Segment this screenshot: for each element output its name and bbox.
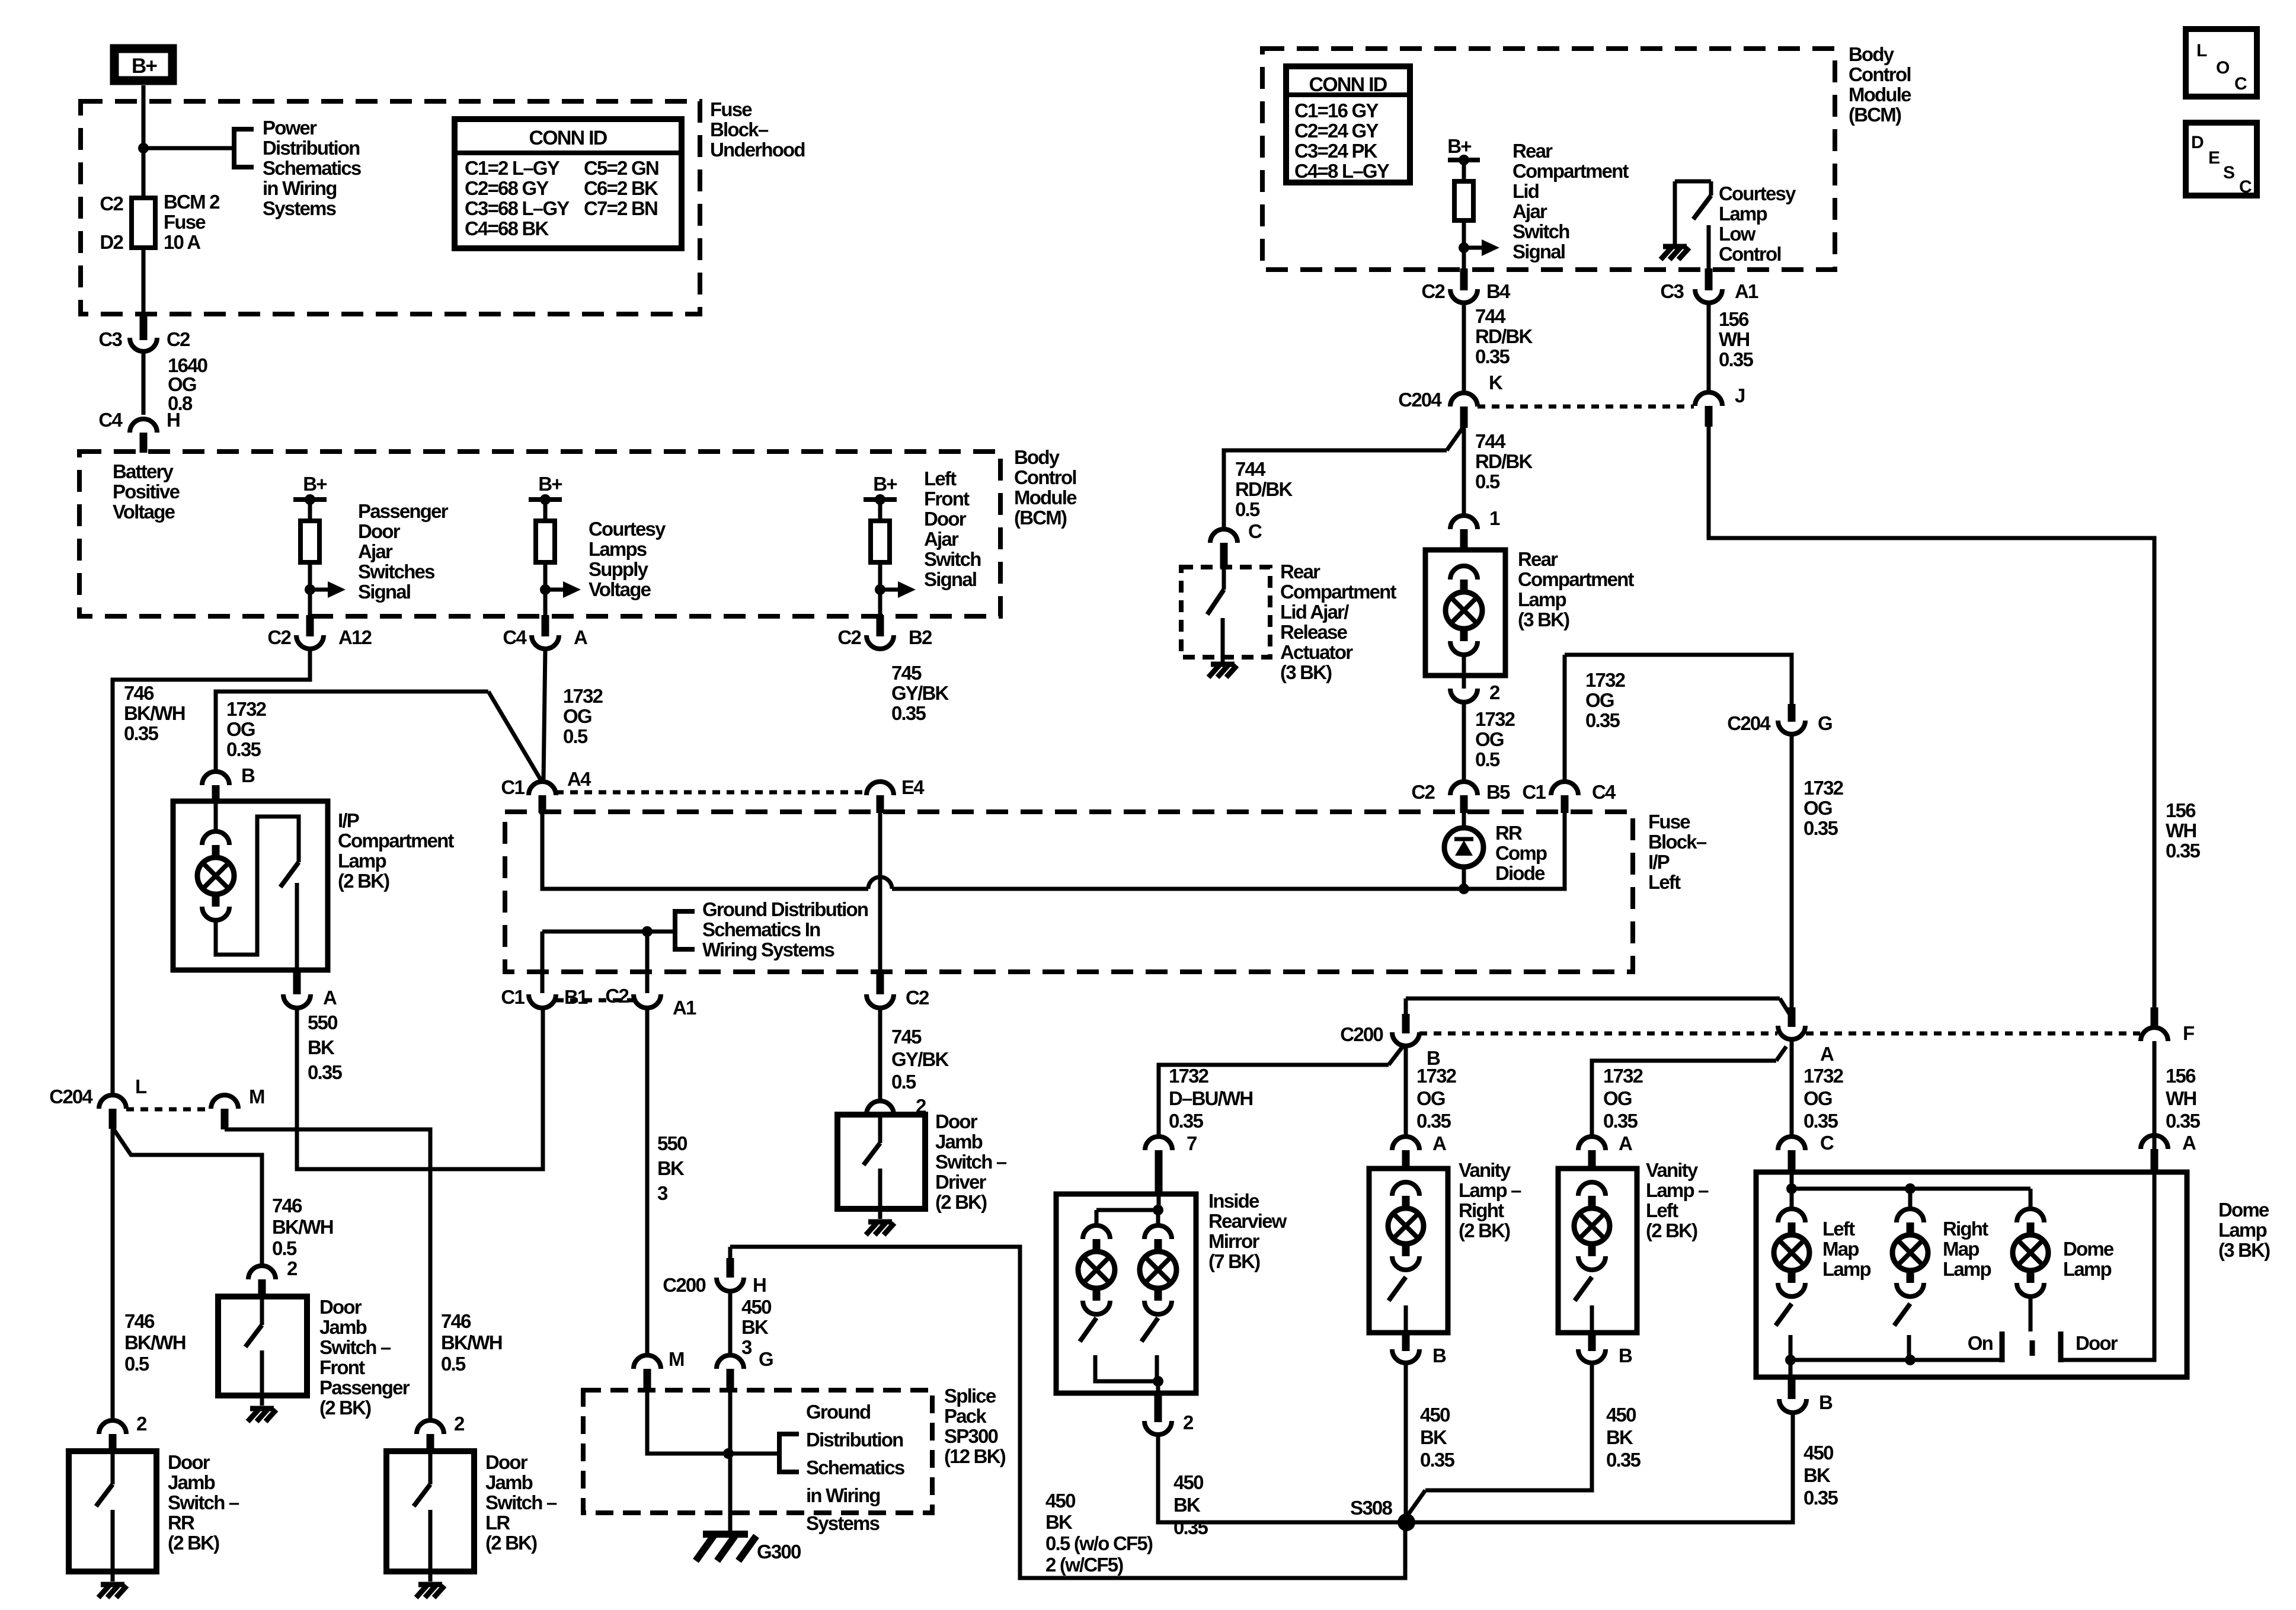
svg-text:B+: B+ (303, 473, 327, 495)
connector A dome lamp (2141, 1135, 2168, 1149)
stub into G (1788, 704, 1796, 722)
connector 2 cup mirror (1144, 1421, 1172, 1435)
wire 746 BK-WH to front passenger jamb (113, 1128, 262, 1266)
connector A cup IP lamp (283, 994, 311, 1008)
left map lamp bulb (1774, 1235, 1809, 1270)
connector C200-B cup (1392, 1032, 1419, 1046)
wire A4 to diode junction west (542, 813, 868, 889)
wire dome bulb lead (2029, 1297, 2033, 1331)
connector C2-B2 cup (866, 635, 894, 649)
svg-text:DomeLamp(3 BK): DomeLamp(3 BK) (2218, 1199, 2270, 1261)
svg-text:C200: C200 (663, 1274, 705, 1296)
stub C4 into fuse block (1561, 795, 1569, 813)
svg-text:DomeLamp: DomeLamp (2063, 1238, 2114, 1280)
wire 746 BK-WH from A12 to C204 L (113, 649, 310, 1095)
wire mirror pin2 inside (1156, 1381, 1160, 1393)
svg-text:B+: B+ (873, 473, 897, 495)
wire mirror left drop (1095, 1210, 1099, 1225)
svg-text:C2: C2 (1411, 781, 1435, 803)
ground below switch Door Jamb LR (416, 1585, 445, 1598)
Rear Compartment Lamp box (1425, 550, 1505, 676)
svg-text:2: 2 (136, 1413, 147, 1435)
Vanity Lamp Left box (1558, 1169, 1637, 1333)
Vanity Lamp Right box (1369, 1169, 1448, 1333)
wire H feed upper (728, 1247, 733, 1265)
connector C3-A1 cup (1695, 289, 1722, 303)
svg-text:A: A (1619, 1132, 1632, 1154)
stub E4 into fuse block (877, 795, 884, 813)
rear compartment lamp socket top contact (1450, 566, 1478, 580)
wire 744 RD-BK to rear lamp (1462, 427, 1466, 516)
svg-text:C4: C4 (503, 626, 527, 648)
svg-text:L: L (135, 1076, 147, 1097)
wire rear lamp to pin 2 (1462, 655, 1466, 689)
rear compartment lamp socket bottom contact (1450, 641, 1478, 655)
connector 2 dome driver (866, 1101, 894, 1115)
connector 2 dome LR (417, 1420, 444, 1434)
junction dome lamp bus west (1786, 1183, 1797, 1194)
svg-text:C2: C2 (1421, 280, 1445, 302)
stub dome lamp pin B (1788, 1377, 1796, 1399)
svg-text:D2: D2 (100, 231, 123, 253)
CONN ID table underhood (455, 119, 682, 248)
svg-text:A1: A1 (673, 997, 696, 1019)
mirror left lamp socket top contact (1083, 1225, 1110, 1239)
switch blade left map lamp (1776, 1304, 1792, 1326)
connector C204-K dome (1450, 393, 1478, 406)
connector 2 dome RR (99, 1420, 126, 1434)
connector G dome (717, 1355, 744, 1369)
connector M dome C200 (634, 1355, 661, 1369)
I/P compartment lamp socket bottom contact (202, 907, 229, 920)
dotted link A4 to E4 (556, 790, 866, 795)
connector C200-A cup (1778, 1026, 1805, 1039)
stub below M (221, 1109, 229, 1129)
left map lamp socket top contact (1778, 1209, 1805, 1222)
wire right map lamp contact (1907, 1335, 1911, 1360)
stub below K (1460, 406, 1468, 428)
stub into connector C3-C2 (140, 314, 148, 340)
svg-text:G300: G300 (757, 1541, 801, 1563)
connector B dome IP lamp (202, 772, 229, 785)
dome lamp bulb socket bottom contact (2017, 1283, 2044, 1297)
wire 450 BK 3 H to G (728, 1291, 733, 1355)
svg-text:C5=2 GNC6=2 BKC7=2 BN: C5=2 GNC6=2 BKC7=2 BN (584, 157, 658, 219)
svg-text:K: K (1489, 372, 1503, 393)
stub below M (644, 1369, 651, 1391)
DESC reference box (2186, 123, 2257, 196)
I/P compartment lamp socket top contact (202, 831, 229, 845)
stub A vanity left (1588, 1150, 1596, 1170)
connector C1-A4 dome (529, 782, 556, 795)
svg-text:C1: C1 (1522, 781, 1546, 803)
wire fuse to box edge (142, 248, 146, 315)
ground below switch Door Jamb Driver (866, 1222, 894, 1235)
svg-text:C200: C200 (1340, 1023, 1383, 1045)
junction dome lamp ground bus west (1785, 1355, 1796, 1365)
wire 550 BK 3 from A1 to M (645, 1008, 650, 1355)
connector J dome (1695, 392, 1722, 406)
wire 744 RD-BK B4 to K (1462, 303, 1466, 393)
svg-text:M: M (249, 1086, 264, 1108)
connector C dome lamp C (1778, 1137, 1805, 1150)
connector 1 dome rear lamp (1450, 516, 1478, 529)
switch blade IP compartment lamp (280, 862, 299, 887)
wire diagonal into A stub (1780, 998, 1790, 1014)
wire mirror right contact (1155, 1355, 1159, 1381)
connector C2 driver cup (866, 994, 894, 1008)
reference bracket power distribution (234, 129, 254, 167)
svg-text:D: D (2191, 133, 2204, 152)
stub into driver jamb connector C2 (877, 972, 884, 994)
connector C4-H dome (130, 419, 157, 433)
wire B1-A1 ground link (542, 930, 673, 934)
svg-text:BatteryPositiveVoltage: BatteryPositiveVoltage (113, 460, 180, 523)
switch Door Jamb LR (386, 1451, 474, 1582)
wire 1732 OG G down (1790, 734, 1794, 1007)
junction dome lamp ground bus mid (1905, 1355, 1916, 1365)
I/P compartment lamp bulb (197, 857, 234, 894)
svg-text:C204: C204 (1398, 389, 1442, 411)
wire 1732 OG to C204 G (1565, 655, 1792, 705)
mirror right lamp socket bottom contact (1144, 1301, 1172, 1314)
svg-text:B: B (1619, 1345, 1632, 1366)
svg-text:F: F (2183, 1022, 2194, 1044)
stub into H (727, 1258, 734, 1278)
connector E4 dome (866, 782, 894, 795)
svg-text:C4: C4 (1592, 781, 1616, 803)
wire 156 WH F to dome lamp A (2153, 1041, 2157, 1150)
ground courtesy lamp low control (1661, 247, 1689, 260)
svg-text:C1=16 GYC2=24 GYC3=24 PKC4=8 L: C1=16 GYC2=24 GYC3=24 PKC4=8 L–GY (1294, 100, 1390, 182)
svg-text:C2: C2 (837, 626, 861, 648)
wire 156 WH A1 to J (1707, 303, 1711, 392)
connector B cup vanity Right (1392, 1349, 1419, 1363)
connector C2-B5 dome (1450, 782, 1478, 795)
Inside Rearview Mirror box (1056, 1194, 1196, 1393)
stub B5 into fuse block (1460, 795, 1468, 813)
svg-text:B: B (1819, 1391, 1833, 1413)
svg-text:C: C (2239, 177, 2252, 197)
connector C2-B4 cup (1450, 289, 1478, 303)
svg-text:C2: C2 (267, 626, 291, 648)
wire IP lamp switch contact (295, 883, 299, 970)
mirror right lamp socket top contact (1144, 1225, 1172, 1239)
svg-text:J: J (1735, 385, 1745, 406)
Fuse Block-Underhood dashed box (81, 101, 700, 314)
I/P Compartment Lamp box (173, 801, 328, 970)
svg-text:C: C (1248, 520, 1262, 542)
vanity lamp Right bulb (1388, 1208, 1424, 1244)
stub into A1 right (1705, 268, 1713, 290)
stub B into IP lamp box (212, 785, 220, 802)
stub into connector A (542, 615, 549, 636)
wire 745 GY-BK to driver jamb (878, 1008, 882, 1101)
connector 7 dome mirror (1145, 1137, 1172, 1150)
connector C204-G cup (1778, 721, 1805, 734)
svg-text:S308: S308 (1350, 1497, 1392, 1519)
svg-text:B+: B+ (538, 473, 562, 495)
svg-text:A: A (2182, 1132, 2196, 1154)
wire B+ to BCM2 fuse (142, 85, 146, 198)
dome lamp bulb socket top contact (2017, 1209, 2044, 1222)
connector 2 dome FP (248, 1266, 276, 1279)
svg-text:A: A (1432, 1132, 1446, 1154)
wire diagonal A to vanity left branch (1776, 1046, 1786, 1061)
connector C3-C2 cup (130, 338, 157, 351)
wire B corner down (1404, 998, 1408, 1015)
reference bracket ground distribution IP (675, 911, 695, 949)
junction at RR comp diode (1459, 884, 1469, 894)
Dome Lamp box (1756, 1172, 2187, 1377)
Splice Pack SP300 dashed box (583, 1390, 932, 1513)
dotted link A to F C200 (1806, 1032, 2140, 1036)
svg-text:C2: C2 (167, 328, 190, 350)
wire IP lamp feed inside (214, 802, 218, 831)
dome lamp movable contact dash (2030, 1340, 2035, 1356)
svg-text:E4: E4 (901, 776, 925, 798)
wire mirror feed inside (1157, 1194, 1161, 1210)
svg-text:S: S (2223, 163, 2234, 183)
svg-text:C3: C3 (1660, 280, 1684, 302)
switch courtesy lamp low control in BCM (1675, 181, 1711, 270)
vanity lamp Left bulb (1574, 1208, 1610, 1244)
wire 1732 D-BU-WH to mirror (1159, 1065, 1389, 1137)
stub below connector H (140, 433, 148, 453)
junction A1 ground link (642, 926, 653, 937)
junction B+ tap (138, 143, 149, 153)
svg-text:A: A (1820, 1043, 1834, 1065)
wire mirror right drop (1156, 1210, 1160, 1225)
stub IP lamp pin A (293, 970, 301, 994)
svg-text:C: C (1820, 1132, 1834, 1154)
connector A dome vanity right (1392, 1137, 1419, 1150)
wire drop to left map lamp (1790, 1189, 1794, 1210)
wire G to ground G300 (728, 1390, 733, 1532)
wire 1732 OG 0.5 from C4-A to A4 (543, 649, 545, 780)
wire 450 BK from H to S308 (730, 1247, 1405, 1578)
wire diode junction east to C4 (892, 813, 1565, 889)
svg-text:B1: B1 (564, 986, 588, 1008)
connector C4-A cup (532, 635, 559, 649)
svg-text:A: A (574, 626, 587, 648)
reference bracket ground distribution splice (779, 1434, 799, 1472)
wire to power distribution reference (143, 146, 234, 151)
svg-text:O: O (2216, 58, 2230, 78)
stub 7 into mirror box (1155, 1150, 1163, 1195)
svg-text:B4: B4 (1486, 280, 1511, 302)
connector C204-L dome (99, 1095, 126, 1109)
connector A dome vanity left (1578, 1137, 1606, 1150)
connector B cup dome lamp (1779, 1399, 1806, 1413)
svg-text:B2: B2 (909, 626, 932, 648)
stub into B (1402, 1014, 1410, 1033)
switch blade mirror left (1080, 1318, 1096, 1342)
stub below J (1705, 406, 1713, 427)
svg-text:B5: B5 (1486, 781, 1510, 803)
wire Door contact to pin A (2061, 1173, 2154, 1360)
wire 1732 OG 0.5 to B5 (1462, 702, 1466, 782)
svg-text:B+: B+ (1447, 135, 1471, 157)
stub A into dome lamp box (2151, 1149, 2159, 1173)
LOC reference box (2186, 29, 2257, 97)
svg-text:M: M (669, 1348, 684, 1370)
svg-text:A1: A1 (1735, 280, 1758, 302)
connector C2-A12 cup (296, 635, 324, 649)
svg-text:2: 2 (1183, 1411, 1194, 1433)
wire vanity Left contact (1590, 1305, 1594, 1333)
fuse BCM 2 10A (132, 198, 155, 248)
switch blade vanity Right (1389, 1277, 1406, 1301)
svg-text:C1: C1 (501, 776, 525, 798)
junction mirror feed (1153, 1205, 1163, 1215)
connector C1-B1 cup (529, 994, 556, 1008)
stub vanity Left pin B (1588, 1333, 1596, 1351)
svg-text:Door: Door (2076, 1332, 2118, 1354)
svg-text:G: G (1818, 712, 1832, 734)
switch Door Jamb Front Passenger (218, 1297, 307, 1406)
vanity lamp Left socket top contact (1578, 1182, 1606, 1196)
Fuse Block-I/P Left dashed box (505, 812, 1633, 972)
dotted link B to A C200 (1419, 1032, 1777, 1036)
stub LR (427, 1434, 434, 1452)
svg-text:A12: A12 (338, 626, 372, 648)
svg-text:2: 2 (454, 1413, 465, 1435)
dome lamp bulb bulb (2013, 1235, 2048, 1270)
vanity lamp Right socket bottom contact (1392, 1256, 1419, 1270)
rear compartment lamp bulb (1446, 592, 1482, 629)
B+ feed courtesy lamps supply (529, 473, 581, 616)
stub into actuator (1220, 543, 1228, 568)
svg-text:E: E (2208, 148, 2220, 168)
wire diagonal 1732 OG to A4 (488, 692, 541, 780)
splice S308 (1398, 1513, 1415, 1531)
Rear Compartment Lid Ajar Release Actuator dashed box (1181, 567, 1270, 657)
wire 156 WH J to F (1709, 425, 2154, 1009)
svg-text:C1: C1 (501, 986, 525, 1008)
junction mirror ground (1153, 1376, 1163, 1387)
stub below L (109, 1109, 117, 1129)
vanity lamp Right socket top contact (1392, 1182, 1419, 1196)
stub into B4 (1460, 268, 1468, 290)
B+ feed left front door ajar (864, 473, 916, 616)
ground actuator (1208, 664, 1237, 677)
svg-text:L: L (2196, 41, 2207, 60)
Body Control Module dashed box left (79, 452, 1000, 616)
wire B to A link top (1406, 997, 1780, 1001)
wire 746 BK-WH to LR jamb (225, 1129, 430, 1420)
wire diagonal B to mirror branch (1389, 1044, 1405, 1065)
wire IP lamp to switch (216, 817, 299, 955)
wire M to splice (647, 1390, 777, 1454)
wire 450 BK S308 to dome lamp B (1406, 1413, 1793, 1522)
stub mirror pin 2 (1155, 1393, 1162, 1422)
svg-text:CONN ID: CONN ID (529, 127, 607, 149)
switch blade right map lamp (1894, 1304, 1910, 1326)
wire 744 RD-BK to lid release actuator (1224, 450, 1447, 530)
wire 450 BK mirror to S308 (1158, 1435, 1405, 1522)
svg-text:On: On (1968, 1332, 1993, 1354)
wire drop to dome lamp bulb (2029, 1189, 2033, 1210)
connector C2-A1 cup (634, 994, 661, 1008)
CONN ID table BCM (1286, 66, 1410, 183)
vanity lamp Left socket bottom contact (1578, 1256, 1606, 1270)
svg-text:C204: C204 (1727, 712, 1771, 734)
wire dome lamp feed bus (1792, 1187, 2030, 1191)
connector F dome (2141, 1028, 2168, 1041)
wire 1732 OG to vanity right (1404, 1046, 1408, 1137)
switch Door Jamb Driver (837, 1115, 925, 1219)
wire 1732 OG C4 drop (1563, 655, 1567, 782)
svg-text:2: 2 (1489, 681, 1500, 703)
junction splice pack (723, 1448, 734, 1459)
right map lamp socket bottom contact (1897, 1283, 1924, 1297)
wire 1732 OG A to dome lamp C (1790, 1039, 1794, 1137)
wire down to B1 (541, 932, 545, 993)
connector B cup vanity Left (1578, 1349, 1606, 1363)
mirror left lamp socket bottom contact (1083, 1301, 1110, 1314)
svg-text:B+: B+ (132, 55, 157, 78)
Body Control Module dashed box right (1262, 49, 1835, 270)
svg-text:C3: C3 (98, 328, 122, 350)
wire E4 down through fuse block (878, 813, 882, 973)
Door contact bar (2058, 1331, 2064, 1362)
svg-text:C4: C4 (98, 409, 123, 431)
stub into connector A12 (306, 615, 314, 636)
stub into connector B2 (877, 615, 884, 636)
junction dome lamp bus mid (1905, 1183, 1916, 1194)
stub FP (258, 1279, 266, 1298)
B+ feed passenger door ajar (293, 473, 346, 616)
wire dome lamp pin B inside (1789, 1360, 1793, 1377)
wire 1732 OG to IP lamp connector B (216, 692, 488, 772)
wire diagonal vanity left to S308 (1406, 1490, 1425, 1517)
svg-text:C2: C2 (605, 985, 629, 1007)
wire mirror left contact to pin2 (1095, 1355, 1158, 1381)
wire 450 BK vanity left toward S308 (1425, 1363, 1592, 1490)
wire drop to right map lamp (1908, 1189, 1913, 1210)
switch blade mirror right (1141, 1318, 1158, 1342)
ground G300 (696, 1534, 756, 1561)
dotted link L to M (126, 1108, 211, 1112)
power node B+ box (114, 49, 172, 81)
diode RR Comp (1444, 813, 1483, 889)
svg-text:A4: A4 (567, 768, 591, 790)
B+ feed rear compartment lid ajar switch (1447, 135, 1499, 270)
wire mirror bus (1096, 1208, 1158, 1212)
svg-text:C204: C204 (49, 1086, 93, 1108)
wire down to A1 (645, 932, 650, 993)
switch lid ajar release actuator (1207, 567, 1224, 662)
wire 1732 OG to vanity left (1592, 1061, 1776, 1137)
svg-text:2: 2 (287, 1257, 298, 1279)
mirror left lamp bulb (1078, 1251, 1115, 1288)
svg-text:C2: C2 (906, 987, 929, 1009)
mirror right lamp bulb (1140, 1251, 1176, 1288)
svg-text:H: H (753, 1274, 766, 1296)
ground below switch Door Jamb Front Passenger (248, 1409, 276, 1422)
svg-text:7: 7 (1187, 1132, 1197, 1154)
svg-text:C: C (2234, 74, 2247, 94)
svg-text:H: H (167, 409, 180, 431)
connector C1-C4 dome (1551, 782, 1578, 795)
svg-text:B: B (1432, 1345, 1446, 1366)
stub into F (2151, 1007, 2159, 1028)
stub below G (727, 1369, 734, 1391)
wire diagonal K branch to actuator (1447, 428, 1463, 450)
wire 1640 OG (142, 351, 146, 415)
dotted link B1 to A1 (556, 998, 634, 1003)
